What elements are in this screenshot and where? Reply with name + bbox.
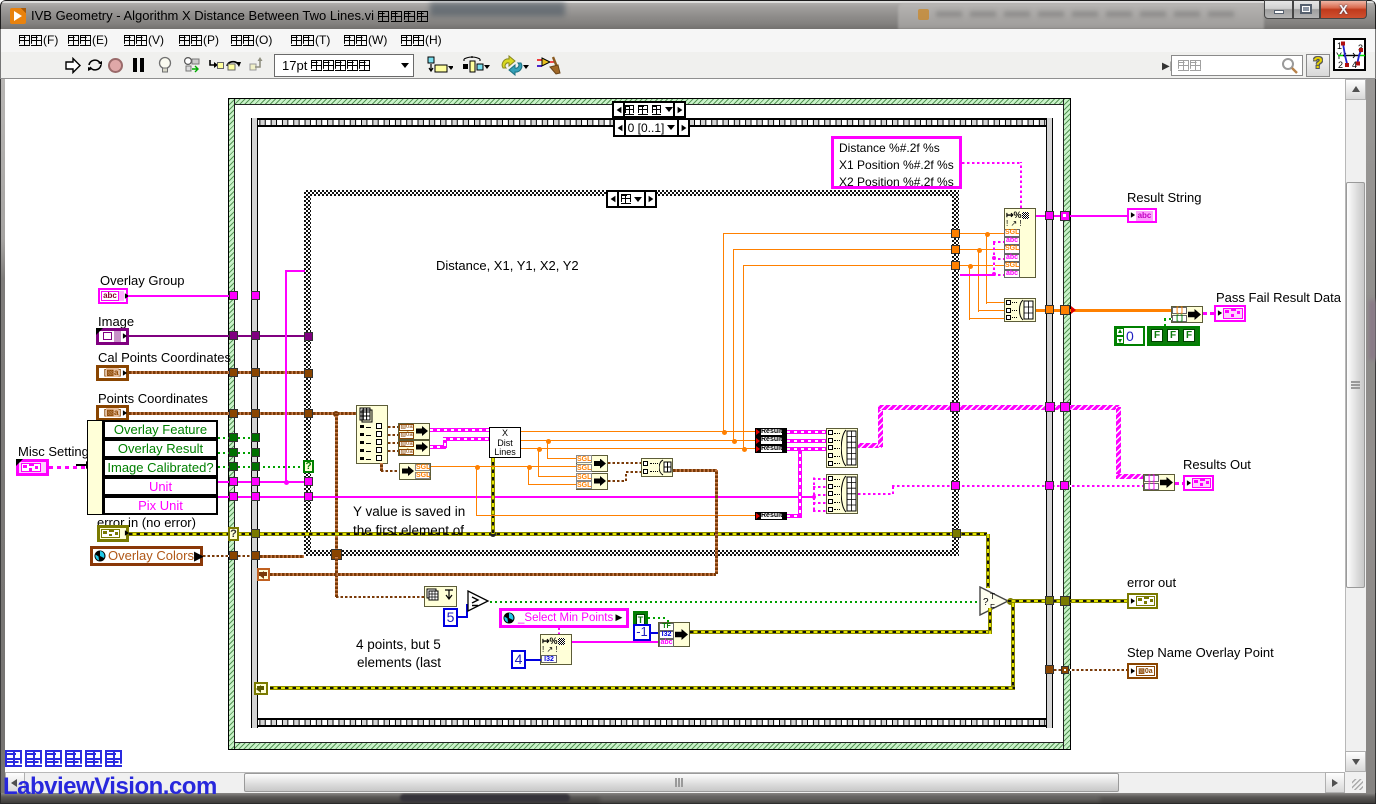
wire Result2 to bundle bbox=[787, 439, 826, 443]
greater-or-equal node bbox=[467, 590, 490, 612]
format node row abc1 bbox=[1004, 237, 1020, 245]
wire idx5 down bbox=[380, 463, 383, 471]
index/convert node before Pass Fail bbox=[1171, 306, 1203, 323]
label error in bbox=[97, 515, 196, 530]
tunnel Unit green border bbox=[229, 477, 238, 486]
tunnel ResultString green border (output tunnel) bbox=[1060, 211, 1070, 221]
wire Image Calibrated bool 2 bbox=[238, 466, 304, 468]
build XY cluster node bbox=[641, 458, 673, 477]
wire bundle1 riser bbox=[878, 407, 883, 447]
svg-text:2: 2 bbox=[1338, 60, 1343, 70]
wire error from XDist down bbox=[491, 458, 495, 534]
wire Points Coordinates bbox=[129, 412, 356, 415]
boolean constant T bbox=[633, 611, 648, 627]
wire build in1 bbox=[986, 302, 1004, 303]
SGL-pair bundle 1 bbox=[576, 455, 608, 472]
terminal Misc Setting (cluster control) bbox=[16, 459, 49, 476]
wire to SGLpair2-in2 bbox=[528, 484, 576, 485]
Index Array node bbox=[356, 405, 388, 464]
bottom frame bbox=[0, 793, 1376, 804]
stub abc1 bbox=[993, 241, 1004, 243]
wire F-array to node bbox=[1164, 318, 1172, 320]
wire Points branch below case bbox=[335, 556, 338, 597]
wire sglpair2 out seg2 bbox=[626, 471, 641, 473]
wire Overlay Colors dotted 1 bbox=[203, 555, 230, 557]
tunnel StepName seq border bbox=[1045, 665, 1054, 674]
wire F-array up bbox=[1164, 318, 1166, 326]
label Image bbox=[98, 314, 134, 329]
wire error down to bottom run bbox=[1011, 603, 1015, 689]
tunnel Points on error-case border bbox=[229, 409, 238, 418]
Overlay Colors global variable bbox=[90, 546, 203, 566]
junction out3 bbox=[742, 447, 747, 452]
tunnel ImageCalib green border bbox=[229, 462, 238, 471]
wire drop resultY bbox=[476, 467, 477, 516]
point-to-XY converter A bbox=[398, 423, 430, 440]
bundle node results-2 bbox=[826, 474, 858, 514]
tunnel Image on inner case border bbox=[304, 332, 313, 341]
case selector label: no-error bbox=[612, 101, 686, 118]
tunnel CalPoints on inner case border bbox=[304, 369, 313, 378]
wire error bottom run bbox=[270, 686, 1015, 690]
Select Min Points global bbox=[499, 608, 629, 628]
wire bundle2 long run bbox=[892, 485, 1145, 487]
stub bundle2 row y486 bbox=[813, 486, 826, 488]
label error out bbox=[1127, 575, 1176, 590]
wire out2 riser bbox=[733, 249, 734, 441]
format node row SGL4 bbox=[1004, 262, 1020, 270]
run button bbox=[64, 57, 82, 74]
wire cluster down right side bbox=[715, 470, 718, 574]
stub vertical abc bbox=[993, 241, 995, 275]
comment Distance X1 Y1 X2 Y2 bbox=[436, 258, 579, 273]
point-to-XY converter B bbox=[398, 440, 430, 457]
to-single-precision converter bbox=[399, 463, 431, 480]
case selector ? tunnel for Image Calibrated bbox=[303, 460, 314, 473]
index array element row 1 bbox=[360, 425, 364, 428]
format node row SGL2 bbox=[1004, 245, 1020, 253]
wire XDist out3 to Result3 bbox=[521, 448, 756, 449]
junction sgl1 bbox=[546, 439, 551, 444]
wire sglpair2 out seg1 bbox=[608, 480, 626, 482]
wire Step Name bbox=[1054, 669, 1127, 671]
tunnel StepName green border bbox=[1061, 666, 1069, 674]
svg-text:T: T bbox=[990, 592, 995, 601]
wire cluster out brown bbox=[673, 469, 717, 472]
wire orange1 to format bbox=[960, 233, 1004, 234]
wire Misc Setting cluster bbox=[49, 466, 87, 469]
wire Points branch to reshape node bbox=[336, 596, 425, 598]
wire select-min down bbox=[558, 628, 560, 635]
tunnel bundle2 seq border bbox=[1045, 481, 1054, 490]
tunnel orange2 case border bbox=[951, 245, 960, 254]
boolean array constant F F F bbox=[1147, 326, 1200, 346]
terminal Pass Fail Result Data bbox=[1214, 305, 1246, 322]
wire out3 riser bbox=[743, 265, 744, 449]
tunnel error-in seq border bbox=[251, 529, 260, 538]
junction out2 bbox=[732, 439, 737, 444]
step into bbox=[209, 58, 224, 72]
wire Result String bbox=[1036, 215, 1127, 217]
unbundle-by-name Misc Setting bbox=[87, 420, 103, 515]
wire Unit string bbox=[218, 481, 304, 483]
tunnel OverlayColors green border bbox=[229, 551, 238, 560]
wire Result4 riser bbox=[798, 450, 802, 517]
vertical scrollbar bbox=[1345, 79, 1366, 772]
left shift register (brown) bbox=[257, 568, 270, 581]
junction Points wire branch down bbox=[333, 411, 339, 417]
terminal Results Out bbox=[1183, 475, 1214, 491]
tunnel OverlayResult seq border bbox=[251, 448, 260, 457]
wire drop sgl1 bbox=[547, 441, 548, 459]
wire line2 cluster riser bbox=[443, 439, 447, 448]
stub abc3 bbox=[993, 274, 1004, 276]
wire Result3 to bundle bbox=[787, 447, 826, 451]
index array element row 3 bbox=[360, 441, 364, 444]
sequence top border (film strip) bbox=[251, 118, 1053, 127]
wire Overlay Feature bool bbox=[218, 437, 230, 439]
wire Image Calibrated bool bbox=[218, 466, 230, 468]
sequence left border bbox=[251, 118, 258, 728]
case selector label: false bbox=[606, 190, 657, 208]
SGL-pair bundle 2 bbox=[576, 473, 608, 490]
wire to PassFail terminal bbox=[1203, 312, 1214, 315]
tunnel passfail seq border bbox=[1045, 305, 1054, 314]
wire results top run bbox=[878, 405, 1120, 410]
wire Pix Unit string segment 1 bbox=[218, 496, 314, 498]
Result name constants x3 bbox=[755, 428, 787, 454]
tunnel ImageCalib seq border bbox=[251, 462, 260, 471]
run continuous button bbox=[85, 56, 105, 75]
search area bbox=[1162, 61, 1172, 72]
junction sgl2 bbox=[537, 447, 542, 452]
stub bundle2 row y478 bbox=[813, 478, 826, 480]
help button bbox=[1306, 54, 1330, 77]
wire to SGLpair1-in1 bbox=[547, 458, 576, 459]
wire Points branch down inside case bbox=[335, 413, 338, 556]
distribute objects bbox=[462, 56, 490, 75]
stub bundle2 row y510 bbox=[813, 510, 826, 512]
format node row abc5 bbox=[1004, 270, 1020, 278]
wire error-in riser to select T bbox=[986, 534, 990, 588]
tunnel Overlay Group on sequence border bbox=[251, 291, 260, 300]
select TF/I32/abc node bbox=[658, 622, 690, 647]
tunnel ResultString seq border bbox=[1045, 211, 1054, 220]
inner case structure (false) checkered border bbox=[304, 190, 959, 196]
wire -1 to select-node bbox=[651, 632, 658, 634]
wire out1 top run bbox=[723, 233, 952, 234]
wire down to build2 bbox=[978, 250, 979, 312]
label Result String bbox=[1127, 190, 1201, 205]
tunnel results case border bbox=[950, 402, 960, 412]
junction fmt3 bbox=[968, 264, 973, 269]
numeric constant 5 bbox=[443, 608, 458, 627]
junction fmt1 bbox=[985, 232, 990, 237]
junction out1 bbox=[722, 430, 727, 435]
align objects bbox=[427, 56, 453, 75]
tunnel errorout seq border bbox=[1045, 596, 1054, 605]
ghost window behind (aero blur) bbox=[430, 2, 565, 16]
watermark line 1 bbox=[5, 750, 125, 768]
wire T out bbox=[648, 617, 667, 619]
wire Unit branch to case bbox=[285, 270, 305, 272]
left shift register (error) bbox=[254, 682, 268, 695]
tunnel Unit seq border bbox=[251, 477, 260, 486]
junction resultY bbox=[475, 465, 480, 470]
window side frames bbox=[0, 79, 5, 793]
wire format string down bbox=[1020, 162, 1022, 208]
wire Overlay Result bool 2 bbox=[238, 452, 251, 454]
terminal Step Name Overlay Point bbox=[1127, 663, 1158, 679]
wire out1 riser bbox=[723, 233, 724, 432]
reorder bbox=[499, 55, 529, 76]
label Pass Fail Result Data bbox=[1216, 290, 1341, 305]
format node row abc3 bbox=[1004, 254, 1020, 262]
unbundle row Overlay Feature bbox=[103, 420, 218, 439]
numeric constant -1 bbox=[633, 624, 651, 641]
v-scroll thumb bbox=[1346, 182, 1365, 588]
scrollbar corner resize grip bbox=[1345, 772, 1366, 793]
tunnel Points on sequence border bbox=[251, 409, 260, 418]
wire Result4 seg bbox=[787, 514, 802, 518]
wire results down bbox=[1116, 407, 1121, 477]
wire Pix Unit string inside case bbox=[314, 496, 813, 498]
tunnel OverlayFeature seq border bbox=[251, 433, 260, 442]
terminal Result String indicator bbox=[1127, 208, 1157, 223]
junction error wire below XDist bbox=[490, 531, 496, 537]
junction pixunit-stub bbox=[812, 495, 816, 499]
label Overlay Group bbox=[100, 273, 185, 288]
tunnel orange1 case border bbox=[951, 229, 960, 238]
label Step Name Overlay Point bbox=[1127, 645, 1274, 660]
tunnel Points on inner case border bbox=[304, 409, 313, 418]
index array element row 2 bbox=[360, 433, 364, 436]
tunnel results seq border bbox=[1045, 402, 1055, 412]
wire Overlay Group string bbox=[128, 295, 230, 297]
wire sglpair1 out bbox=[608, 462, 641, 464]
comment 4 points line2 bbox=[357, 655, 441, 670]
unbundle row Unit bbox=[103, 477, 218, 496]
window buttons bbox=[1264, 0, 1293, 19]
comment Y value line1 bbox=[353, 504, 465, 519]
highlight execution bulb bbox=[158, 56, 172, 75]
wire cluster long left to shift register bbox=[270, 573, 716, 576]
index array element row 5 bbox=[360, 457, 364, 460]
junction fmt2 bbox=[977, 248, 982, 253]
wire down to build1 bbox=[986, 234, 987, 304]
tunnel bundle2 case border bbox=[951, 481, 960, 490]
unbundle row Overlay Result bbox=[103, 439, 218, 458]
terminal error out bbox=[1127, 593, 1158, 609]
index array element row 4 bbox=[360, 449, 364, 452]
menu bar bbox=[0, 29, 1376, 52]
comment Y value line2 bbox=[353, 523, 464, 538]
wire down to build3 bbox=[969, 266, 970, 320]
wire line2 cluster seg2 bbox=[443, 437, 489, 441]
wire out3 top run bbox=[743, 265, 952, 266]
wire Image refnum bbox=[129, 335, 304, 337]
abort button (disabled) bbox=[108, 58, 123, 73]
wire XDist out1 to Result1 bbox=[521, 431, 756, 432]
window title bbox=[31, 8, 430, 23]
wire bundle2 riser bbox=[892, 485, 894, 494]
unbundle row Pix Unit bbox=[103, 496, 218, 515]
tunnel orange3 case border bbox=[951, 261, 960, 270]
watermark line 2 bbox=[3, 773, 217, 801]
arrow into unbundle bbox=[76, 464, 88, 466]
wire Overlay Colors dotted 2 bbox=[238, 555, 252, 557]
VI icon (top-right) bbox=[1333, 38, 1366, 71]
error-case selector ? tunnel bbox=[228, 527, 239, 541]
wire Result1 to bundle bbox=[787, 430, 826, 434]
junction sgl4 bbox=[527, 465, 532, 470]
sequence frame label 0 [0..1] bbox=[613, 118, 690, 137]
combine node before Results Out bbox=[1143, 474, 1175, 491]
tunnel passfail green border bbox=[1060, 305, 1070, 315]
label Cal Points Coordinates bbox=[98, 350, 231, 365]
tunnel Image on sequence border bbox=[251, 331, 260, 340]
wire 4 to scan bbox=[526, 659, 541, 661]
tunnel Image on error-case border bbox=[229, 331, 238, 340]
wire bundle1 out seg1 bbox=[858, 443, 882, 448]
wire bundle2 out seg1 bbox=[858, 493, 893, 495]
wire error out bbox=[1008, 599, 1127, 603]
wire orange2 to format bbox=[960, 249, 1004, 250]
junction Unit wire bbox=[284, 480, 289, 485]
pause button bbox=[133, 58, 137, 72]
h-scroll thumb bbox=[244, 773, 1119, 792]
tunnel PixUnit seq border bbox=[251, 492, 260, 501]
wire line1 cluster to XDist bbox=[430, 428, 489, 432]
wire orange3 to format bbox=[960, 265, 1004, 266]
Result name constant 4 bbox=[755, 512, 787, 521]
wire Cal Points Coordinates bbox=[129, 371, 304, 374]
format node row SGL0 bbox=[1004, 229, 1020, 237]
wire drop sgl4 bbox=[528, 467, 529, 484]
wire unit-string from case border bbox=[960, 274, 994, 276]
wire idx out 1 bbox=[388, 426, 398, 428]
reshape array node bbox=[424, 586, 457, 607]
format string constant bbox=[831, 136, 962, 189]
wire build in2 bbox=[978, 310, 1004, 311]
wire idx out 4 bbox=[388, 450, 398, 452]
unbundle row Image Calibrated? bbox=[103, 458, 218, 477]
wire select-node out bbox=[690, 630, 988, 634]
terminal Cal Points Coordinates (array) bbox=[96, 365, 129, 381]
tunnel OverlayResult green border bbox=[229, 448, 238, 457]
build array node (pass fail) bbox=[1004, 298, 1036, 322]
step over bbox=[225, 56, 242, 72]
wire to Results Out terminal bbox=[1175, 482, 1183, 485]
wire riser to select F bbox=[988, 608, 992, 634]
numeric constant 0 with increment bbox=[1114, 326, 1145, 346]
wire Unit branch up bbox=[285, 271, 287, 482]
tunnel CalPoints on error-case border bbox=[229, 368, 238, 377]
tunnel OverlayFeature green border bbox=[229, 433, 238, 442]
label Results Out bbox=[1183, 457, 1251, 472]
sequence right border bbox=[1046, 118, 1053, 728]
Scan From String node bbox=[540, 634, 572, 665]
terminal Overlay Group (string control) bbox=[98, 288, 128, 304]
junction select out bbox=[1007, 598, 1014, 605]
wire out2 top run bbox=[733, 249, 952, 250]
stub bundle2 row y494 bbox=[813, 494, 826, 496]
terminal Points Coordinates (array) bbox=[96, 405, 129, 421]
tunnel Points branch through case bottom border bbox=[331, 549, 342, 560]
svg-text:?: ? bbox=[983, 597, 989, 608]
stub bundle2 row y502 bbox=[813, 502, 826, 504]
wire scan out to select-node bbox=[572, 641, 659, 643]
numeric constant 4 bbox=[511, 650, 526, 669]
label Points Coordinates bbox=[98, 391, 208, 406]
stub dot1 bbox=[992, 256, 996, 260]
tunnel OverlayColors seq border bbox=[251, 551, 260, 560]
wire T down bbox=[667, 617, 669, 627]
label Misc Setting bbox=[18, 444, 89, 459]
tunnel PixUnit inner case border bbox=[304, 492, 313, 501]
bundle node results-1 bbox=[826, 428, 858, 468]
wire tosingle out to SGLpair1-in2 bbox=[431, 466, 576, 467]
tunnel results green border bbox=[1060, 402, 1070, 412]
wire idx out 3 bbox=[388, 442, 398, 444]
stub abc2 bbox=[993, 258, 1004, 260]
Format Into String node bbox=[1004, 208, 1036, 278]
horizontal scrollbar bbox=[5, 772, 1345, 793]
select function ?TF bbox=[979, 586, 1010, 616]
wire to SGLpair2-in1 bbox=[538, 476, 576, 477]
wire Overlay Result bool bbox=[218, 452, 230, 454]
wire to Result4 bbox=[476, 515, 756, 516]
wire gte result to select bbox=[490, 601, 980, 603]
X Dist Lines subVI bbox=[489, 427, 521, 458]
comment 4 points line1 bbox=[356, 637, 441, 652]
stub dot2 bbox=[992, 272, 996, 276]
wire 5 riser bbox=[466, 604, 468, 616]
wire drop sgl2 bbox=[538, 449, 539, 477]
tunnel PixUnit green border bbox=[229, 492, 238, 501]
stub vertical bundle2 bbox=[813, 477, 815, 510]
wire Overlay Feature bool 2 bbox=[238, 437, 251, 439]
wire sglpair2 riser bbox=[625, 472, 627, 481]
tunnel error-in case right border bbox=[952, 529, 961, 538]
sequence bottom border (film strip) bbox=[251, 718, 1053, 727]
tunnel Overlay Group on error-case border bbox=[229, 291, 238, 300]
tunnel bundle2 green border bbox=[1060, 481, 1069, 490]
LabVIEW window icon bbox=[10, 8, 26, 24]
wire XDist out2 to Result2 bbox=[521, 440, 756, 441]
clean up diagram bbox=[536, 55, 561, 77]
title bar bbox=[0, 0, 1376, 29]
terminal error in (cluster) bbox=[97, 525, 129, 542]
step out bbox=[249, 56, 266, 72]
tunnel errorout green border bbox=[1060, 596, 1070, 606]
wire Overlay Colors to case bbox=[260, 555, 304, 558]
tunnel CalPoints on sequence border bbox=[251, 368, 260, 377]
wire error in bbox=[129, 532, 987, 536]
wire format string seg1 bbox=[962, 162, 1022, 164]
wire passfail array bbox=[1036, 309, 1171, 312]
terminal Image (refnum control) bbox=[96, 328, 129, 345]
wire 5 to gte bbox=[458, 616, 468, 618]
wire idx5 to tosingle bbox=[381, 470, 399, 472]
wire results into node bbox=[1116, 474, 1143, 479]
toolbar bbox=[0, 52, 1376, 79]
wire line2 cluster seg1 bbox=[430, 445, 446, 449]
error case structure (no error) green hatched border bbox=[228, 98, 1071, 750]
retain wire values bbox=[183, 56, 200, 75]
font selector box bbox=[274, 54, 414, 77]
wire build in3 bbox=[969, 318, 1004, 319]
